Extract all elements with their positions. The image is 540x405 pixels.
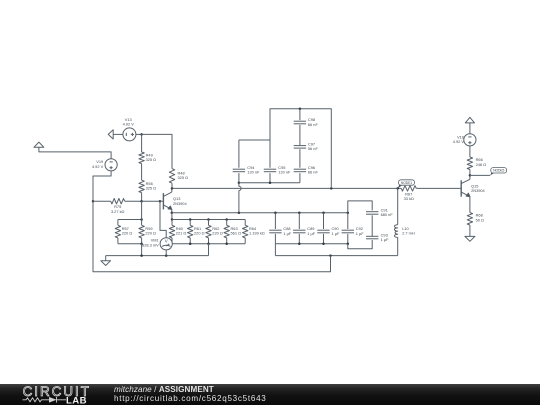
- capacitor C95: [264, 165, 291, 175]
- wire (caps bottom line): [275, 243, 347, 245]
- wire: [160, 200, 163, 202]
- wire (cap net mid line): [239, 139, 270, 141]
- svg-text:120 nF: 120 nF: [247, 170, 260, 175]
- wire: [93, 171, 111, 201]
- capacitor C89: [293, 226, 316, 236]
- wire: [470, 174, 490, 176]
- node junction: [207, 242, 210, 245]
- node junction: [298, 242, 301, 245]
- svg-text:561 Ω: 561 Ω: [231, 231, 242, 236]
- resistor R64: [243, 225, 265, 238]
- node junction: [322, 242, 325, 245]
- wire: [141, 193, 143, 202]
- node junction: [140, 218, 143, 221]
- resistor R66: [467, 157, 486, 170]
- wire (bottoms R60-R64): [172, 243, 245, 245]
- footer bar: [0, 384, 540, 405]
- wire (lower rail): [275, 255, 397, 257]
- svg-text:2N3904: 2N3904: [173, 201, 187, 206]
- svg-text:50 Ω: 50 Ω: [476, 217, 484, 222]
- svg-text:1.199 kΩ: 1.199 kΩ: [249, 231, 265, 236]
- ground: [465, 236, 475, 241]
- node junction: [396, 187, 399, 190]
- svg-text:33 kΩ: 33 kΩ: [404, 196, 414, 201]
- wire: [141, 244, 143, 256]
- wire (tops of R57,R59): [118, 219, 142, 221]
- node junction: [171, 218, 174, 221]
- node flag NODE5: [490, 168, 506, 176]
- node junction: [238, 212, 241, 215]
- svg-text:LAB: LAB: [66, 395, 87, 405]
- wire: [141, 201, 143, 219]
- svg-text:325 Ω: 325 Ω: [146, 157, 157, 162]
- wire (cap net bottom line): [239, 182, 300, 184]
- svg-text:220 Ω: 220 Ω: [212, 231, 223, 236]
- wire (hop over collector): [239, 183, 241, 213]
- svg-text:120 nF: 120 nF: [278, 170, 291, 175]
- svg-text:221 Ω: 221 Ω: [176, 231, 187, 236]
- wire: [141, 220, 143, 226]
- wire (return to V19-): [93, 201, 331, 272]
- wire: [113, 133, 123, 135]
- wire: [274, 234, 276, 244]
- wire: [416, 187, 461, 189]
- svg-text:1 µF: 1 µF: [381, 237, 389, 242]
- node flag F3 (up arrow): [465, 117, 474, 123]
- resistor R75: [111, 199, 125, 214]
- node junction: [322, 212, 325, 215]
- wire: [397, 237, 399, 255]
- wire: [117, 238, 119, 244]
- resistor R49: [139, 152, 156, 164]
- wire: [208, 238, 210, 244]
- wire: [269, 140, 271, 168]
- wire: [226, 220, 228, 226]
- wire: [39, 147, 111, 158]
- svg-text:66 nF: 66 nF: [308, 170, 319, 175]
- svg-text:2.7 mH: 2.7 mH: [402, 231, 415, 236]
- node junction: [189, 218, 192, 221]
- svg-text:220 Ω: 220 Ω: [194, 231, 205, 236]
- wire: [105, 256, 107, 261]
- wire: [142, 134, 172, 168]
- wire: [299, 109, 301, 120]
- svg-text:325 Ω: 325 Ω: [146, 185, 157, 190]
- wire: [347, 234, 349, 244]
- node junction: [140, 133, 143, 136]
- svg-text:1 µF: 1 µF: [356, 231, 364, 236]
- node junction: [330, 187, 333, 190]
- node junction: [299, 107, 302, 110]
- wire (cap net top line): [270, 109, 331, 189]
- wire: [469, 170, 471, 176]
- wire: [141, 134, 143, 152]
- wire: [298, 234, 300, 244]
- wire (emitter line): [172, 212, 348, 214]
- wire: [117, 220, 119, 226]
- wire: [469, 146, 471, 157]
- wire: [469, 225, 471, 236]
- wire: [371, 215, 373, 236]
- wire: [226, 238, 228, 244]
- wire: [142, 200, 160, 202]
- wire: [238, 140, 240, 168]
- capacitor C98: [294, 117, 319, 127]
- wire: [348, 201, 372, 213]
- node junction: [171, 187, 174, 190]
- svg-text:NODE1: NODE1: [401, 181, 412, 185]
- node flag F2 (up arrow): [34, 142, 44, 147]
- wire: [348, 240, 372, 249]
- wire: [160, 201, 166, 238]
- svg-text:3.27 kΩ: 3.27 kΩ: [111, 209, 125, 214]
- voltage source V13: [123, 117, 136, 141]
- resistor R62: [206, 225, 223, 238]
- resistor R68: [467, 213, 484, 226]
- svg-text:66 nF: 66 nF: [308, 122, 319, 127]
- resistor R56: [139, 180, 156, 192]
- svg-text:4.92 V: 4.92 V: [92, 164, 104, 169]
- wire: [165, 250, 167, 256]
- resistor R57: [115, 225, 132, 238]
- voltage source V16: [453, 134, 476, 146]
- wire: [298, 213, 300, 229]
- node junction: [469, 174, 472, 177]
- node junction: [225, 218, 228, 221]
- svg-text:2N3904: 2N3904: [471, 188, 485, 193]
- wire: [299, 125, 301, 145]
- capacitor C92: [342, 226, 365, 236]
- wire: [208, 244, 210, 256]
- wire (bottoms R57,R59): [118, 243, 142, 245]
- resistor R48: [169, 169, 188, 184]
- voltmeter VM1: [142, 238, 172, 250]
- svg-text:220 Ω: 220 Ω: [122, 231, 133, 236]
- node junction: [274, 212, 277, 215]
- svg-text:4.92 V: 4.92 V: [123, 121, 135, 126]
- resistor R63: [224, 225, 241, 238]
- wire: [274, 213, 276, 229]
- node junction: [238, 181, 241, 184]
- wire: [274, 244, 276, 256]
- wire: [141, 164, 143, 181]
- svg-text:680 nF: 680 nF: [381, 212, 394, 217]
- wire: [208, 220, 210, 226]
- capacitor C94: [233, 165, 260, 175]
- wire: [172, 187, 401, 189]
- svg-text:NODE5: NODE5: [493, 169, 504, 173]
- svg-text:248 Ω: 248 Ω: [476, 162, 487, 167]
- svg-text:V: V: [165, 239, 168, 244]
- capacitor C96: [294, 165, 319, 175]
- wire (ground rail): [106, 255, 209, 257]
- svg-text:56 nF: 56 nF: [308, 146, 319, 151]
- node junction: [140, 242, 143, 245]
- resistor R61: [188, 225, 205, 238]
- wire: [189, 220, 191, 226]
- node junction: [159, 200, 162, 203]
- capacitor C97: [294, 142, 319, 152]
- wire: [244, 220, 246, 226]
- svg-text:1 µF: 1 µF: [332, 231, 340, 236]
- transistor Q15 2N3904: [461, 175, 485, 212]
- resistor R59: [139, 225, 156, 238]
- node junction: [140, 254, 143, 257]
- node junction: [207, 218, 210, 221]
- wire: [189, 238, 191, 244]
- node junction: [189, 242, 192, 245]
- CircuitLab logo: [0, 384, 110, 405]
- node flag F1 (left arrow at V13 minus): [108, 130, 113, 139]
- resistor R67: [401, 186, 416, 202]
- node junction: [347, 242, 350, 245]
- node junction: [140, 200, 143, 203]
- node flag NODE1: [398, 180, 415, 189]
- wire: [171, 238, 173, 244]
- wire: [171, 220, 173, 226]
- node junction: [92, 200, 95, 203]
- wire: [299, 173, 301, 183]
- wire: [238, 173, 240, 183]
- inductor L10: [394, 225, 415, 238]
- svg-text:325 Ω: 325 Ω: [178, 175, 189, 180]
- ground: [101, 261, 111, 266]
- node junction: [165, 254, 168, 257]
- wire: [141, 238, 143, 244]
- svg-text:220 Ω: 220 Ω: [145, 231, 156, 236]
- node junction: [269, 181, 272, 184]
- wire: [136, 133, 142, 135]
- node junction: [171, 212, 174, 215]
- capacitor C91: [366, 208, 393, 218]
- wire: [269, 173, 271, 183]
- capacitor C88: [269, 226, 292, 236]
- wire: [171, 183, 173, 188]
- wire: [171, 213, 173, 220]
- voltage source V19: [92, 159, 117, 171]
- wire: [299, 149, 301, 168]
- wire: [125, 200, 142, 202]
- footer text: [114, 385, 267, 404]
- transistor Q13 2N3904: [163, 188, 187, 212]
- node junction: [347, 212, 350, 215]
- node junction: [298, 212, 301, 215]
- wire: [323, 213, 325, 229]
- capacitor C90: [317, 226, 340, 236]
- svg-text:4.92 V: 4.92 V: [453, 139, 465, 144]
- wire: [244, 238, 246, 244]
- svg-text:1 µF: 1 µF: [283, 231, 291, 236]
- node junction: [225, 242, 228, 245]
- wire (tops of R60-R64): [172, 219, 245, 221]
- resistor R60: [169, 225, 186, 238]
- node junction: [329, 254, 332, 257]
- wire: [347, 213, 349, 229]
- wire: [469, 123, 471, 134]
- capacitor C93: [366, 232, 389, 242]
- svg-text:1 µF: 1 µF: [307, 231, 315, 236]
- wire: [397, 188, 399, 224]
- svg-text:828.3 mV: 828.3 mV: [142, 242, 159, 247]
- wire: [323, 234, 325, 244]
- wire: [93, 200, 111, 202]
